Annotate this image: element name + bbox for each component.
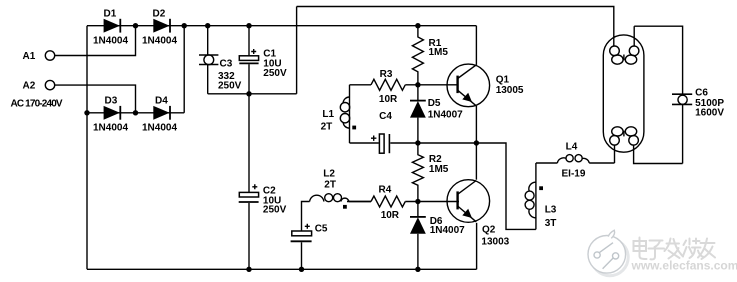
- capacitor C3: [199, 55, 242, 91]
- svg-text:C4: C4: [379, 111, 392, 122]
- wire top rail: [87, 25, 476, 27]
- junction D3-D4 A2 node: [133, 110, 138, 115]
- junction Q1 emitter Q2 collector node: [474, 140, 479, 145]
- capacitor C4: [371, 111, 392, 153]
- capacitor C2: [239, 184, 287, 215]
- svg-text:D2: D2: [153, 9, 166, 20]
- svg-text:D5: D5: [428, 98, 441, 109]
- watermark logo: [588, 230, 628, 275]
- svg-text:10R: 10R: [379, 94, 398, 105]
- svg-text:L1: L1: [322, 109, 334, 120]
- svg-text:L4: L4: [566, 141, 578, 152]
- capacitor C6: [672, 88, 724, 119]
- wire Q1 emitter to Q2 collector: [475, 106, 477, 180]
- junction R1 on +rail: [415, 23, 420, 28]
- junction D3 anode left rail: [84, 110, 89, 115]
- wire D6 bottom lead: [417, 234, 419, 269]
- junction Q2 base node: [415, 199, 420, 204]
- wire C4 to node: [390, 142, 418, 144]
- svg-text:250V: 250V: [218, 80, 242, 91]
- junction D4 riser on +rail: [182, 23, 187, 28]
- wire top line: [297, 7, 614, 47]
- svg-text:1N4004: 1N4004: [142, 123, 177, 134]
- wire L4 to lamp: [589, 162, 614, 164]
- wire Q1 collector drop: [475, 26, 477, 65]
- terminal A1: [23, 51, 55, 62]
- wire R4 to base node Q2: [405, 201, 459, 203]
- wire node row under C1: [208, 93, 297, 95]
- svg-text:EI-19: EI-19: [562, 168, 586, 179]
- svg-text:2T: 2T: [321, 122, 333, 133]
- wire C6 top lead: [634, 26, 682, 94]
- wire A1 lead: [55, 26, 136, 56]
- lamp tube: [603, 35, 644, 152]
- wire L2 left corner to C5: [302, 202, 310, 232]
- capacitor C5: [291, 224, 328, 242]
- svg-text:1N4007: 1N4007: [430, 225, 465, 236]
- svg-text:L2: L2: [323, 169, 335, 180]
- wire D5 bottom lead: [417, 118, 419, 143]
- svg-text:1M5: 1M5: [429, 164, 449, 175]
- wire bottom rail: [87, 268, 477, 270]
- diode D6: [410, 216, 465, 236]
- inductor L1: [321, 97, 356, 133]
- resistor R3: [371, 69, 405, 105]
- transistor Q1: [447, 64, 524, 107]
- svg-text:Q2: Q2: [482, 225, 496, 236]
- svg-text:1N4004: 1N4004: [93, 36, 128, 47]
- svg-text:1N4004: 1N4004: [142, 36, 177, 47]
- diode D5: [410, 98, 463, 120]
- wire C2 column: [248, 94, 250, 193]
- wire lamp bottom-left pin: [614, 145, 616, 163]
- svg-text:A2: A2: [23, 81, 36, 92]
- junction C3 on +rail: [205, 23, 210, 28]
- wire C2 bottom lead: [248, 203, 250, 269]
- diode D3: [93, 96, 128, 134]
- diode D4: [142, 96, 177, 134]
- junction Q1 base node: [415, 82, 420, 87]
- wire lamp top-right pin: [633, 26, 635, 46]
- wire lamp bottom-right pin: [634, 145, 683, 164]
- svg-text:D3: D3: [105, 96, 118, 107]
- svg-text:AC 170-240V: AC 170-240V: [11, 99, 63, 110]
- inductor L3: [525, 182, 557, 229]
- svg-text:R3: R3: [380, 69, 393, 80]
- terminal A2: [23, 80, 55, 91]
- wire emitter node row: [418, 143, 536, 229]
- svg-text:D4: D4: [155, 96, 168, 107]
- svg-text:10R: 10R: [381, 210, 400, 221]
- wire D6 top lead: [417, 202, 419, 217]
- wire C1 top lead: [248, 26, 250, 56]
- junction C1-C2 mid node: [246, 91, 251, 96]
- svg-text:250V: 250V: [263, 68, 287, 79]
- wire L1 to C4: [350, 142, 379, 144]
- wire L1 column: [349, 85, 351, 143]
- svg-text:3T: 3T: [545, 218, 557, 229]
- svg-text:R4: R4: [379, 184, 392, 195]
- wire mid vertical: [296, 7, 298, 94]
- wire bridge bottom row: [87, 112, 184, 114]
- wire L3 to L4: [536, 162, 558, 164]
- wire D4 riser: [183, 26, 185, 113]
- transistor Q2: [447, 180, 510, 248]
- junction D6 on -rail: [415, 267, 420, 272]
- wire A2 lead: [55, 85, 136, 113]
- junction D5-C4-R2 node: [415, 140, 420, 145]
- wire R3 to base node: [405, 84, 457, 86]
- svg-text:Q1: Q1: [496, 75, 510, 86]
- lamp top filament: [610, 46, 620, 56]
- svg-text:www.elecfans.com: www.elecfans.com: [631, 259, 737, 273]
- junction D1-D2 A1 node: [133, 23, 138, 28]
- svg-text:2T: 2T: [324, 179, 336, 190]
- svg-text:A1: A1: [23, 51, 36, 62]
- wire base row Q2: [347, 201, 371, 203]
- wire base row Q1: [350, 84, 372, 86]
- svg-text:D1: D1: [104, 9, 117, 20]
- capacitor C1: [239, 49, 287, 80]
- junction C2 on -rail: [246, 267, 251, 272]
- resistor R4: [371, 184, 405, 221]
- svg-text:1600V: 1600V: [695, 108, 724, 119]
- svg-text:13003: 13003: [481, 237, 509, 248]
- wire C3 top lead: [207, 26, 209, 55]
- wire Q2 emitter drop: [476, 223, 478, 269]
- inductor L2: [310, 169, 371, 209]
- resistor R1: [412, 26, 448, 85]
- svg-text:1M5: 1M5: [429, 47, 449, 58]
- svg-text:C3: C3: [220, 59, 233, 70]
- wire C1 bottom lead: [248, 64, 250, 94]
- wire left vertical: [86, 26, 88, 270]
- junction C5 on -rail: [299, 267, 304, 272]
- resistor R2: [412, 143, 448, 202]
- svg-text:250V: 250V: [263, 205, 287, 216]
- svg-text:C6: C6: [695, 88, 708, 99]
- diode D1: [93, 9, 128, 47]
- wire C3 bottom lead: [207, 65, 209, 94]
- svg-text:1N4004: 1N4004: [93, 123, 128, 134]
- svg-text:1N4007: 1N4007: [428, 110, 463, 121]
- diode D2: [142, 9, 177, 47]
- svg-text:C5: C5: [315, 224, 328, 235]
- wire C5 bottom lead: [301, 242, 303, 269]
- wire L3 column: [535, 163, 537, 229]
- lamp bottom filament: [610, 136, 620, 146]
- junction C1 on +rail: [246, 23, 251, 28]
- watermark text 电子发烧友: [634, 238, 716, 260]
- wire D5 top lead: [417, 85, 419, 101]
- svg-text:13005: 13005: [496, 85, 524, 96]
- svg-text:L3: L3: [545, 205, 557, 216]
- wire C6 bottom lead: [682, 105, 684, 164]
- inductor L4: [557, 141, 589, 179]
